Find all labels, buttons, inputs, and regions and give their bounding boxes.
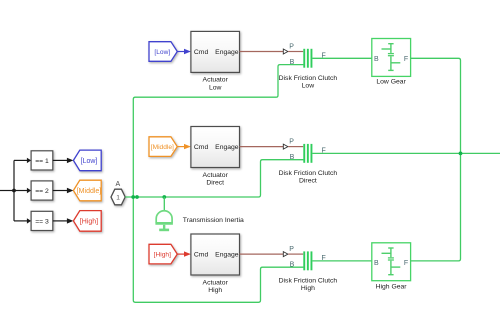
svg-text:Direct: Direct: [299, 178, 317, 185]
junction: input branch point: [12, 189, 16, 193]
actuator High block: [191, 234, 240, 275]
svg-text:A: A: [115, 181, 120, 188]
from tag [High]: [149, 244, 177, 264]
svg-text:Actuator: Actuator: [203, 279, 229, 286]
svg-text:P: P: [289, 138, 294, 145]
svg-text:Cmd: Cmd: [194, 49, 209, 56]
wire: tag to actuator direct: [177, 144, 191, 149]
wire: compare 3 to goto tag: [53, 218, 74, 223]
compare block == 2: [31, 181, 53, 200]
actuator Direct block: [191, 127, 240, 168]
label: Actuator Low: [203, 77, 229, 92]
wire: into compare block 2: [14, 188, 31, 193]
wire: Low Gear F down to output: [411, 58, 461, 153]
wire: into compare block 3: [14, 218, 31, 223]
svg-text:Actuator: Actuator: [203, 172, 229, 179]
wire: engage physical signal (high): [240, 253, 284, 255]
svg-text:Cmd: Cmd: [194, 252, 209, 259]
disk friction clutch Low (plates): [303, 49, 312, 68]
svg-text:F: F: [404, 56, 408, 63]
wire: engage physical signal (low): [240, 51, 284, 53]
pin arrow into clutch P (direct): [283, 144, 303, 149]
svg-text:High Gear: High Gear: [376, 284, 408, 291]
svg-text:Cmd: Cmd: [194, 144, 209, 151]
High Gear block: [372, 243, 411, 281]
wire: compare 1 to goto tag: [53, 158, 74, 163]
actuator Low block: [191, 31, 240, 72]
wire: tag to actuator low: [177, 49, 191, 54]
svg-text:High: High: [208, 287, 222, 294]
goto tag [Middle]: [73, 180, 101, 201]
compare block == 1: [31, 151, 53, 170]
from tag [Middle]: [149, 137, 177, 157]
svg-text:[Middle]: [Middle]: [77, 188, 102, 195]
wire: High Gear F up to output: [411, 153, 461, 261]
svg-text:Disk Friction Clutch: Disk Friction Clutch: [279, 75, 338, 82]
svg-text:Low: Low: [302, 83, 315, 90]
wire: clutch Low F to Low Gear B: [312, 57, 371, 59]
svg-text:B: B: [374, 56, 379, 63]
svg-text:P: P: [289, 246, 294, 253]
junction: bus / port A line: [131, 195, 135, 199]
svg-text:== 3: == 3: [35, 218, 49, 225]
svg-text:High: High: [301, 285, 315, 292]
svg-text:1: 1: [116, 195, 120, 202]
pin arrow into clutch P (high): [283, 252, 303, 257]
compare block == 3: [31, 211, 53, 230]
wire: branch vertical: [13, 160, 15, 221]
svg-text:Disk Friction Clutch: Disk Friction Clutch: [279, 170, 338, 177]
wire: into compare block 1: [14, 158, 31, 163]
wire: tag to actuator high: [177, 251, 191, 256]
svg-text:Engage: Engage: [215, 144, 239, 151]
label: Disk Friction Clutch Low: [279, 75, 338, 90]
goto tag [High]: [73, 211, 101, 232]
svg-text:Transmission Inertia: Transmission Inertia: [183, 217, 244, 224]
svg-text:Low: Low: [209, 84, 222, 91]
svg-text:[Middle]: [Middle]: [151, 144, 174, 151]
disk friction clutch Direct (plates): [303, 144, 312, 163]
svg-text:[Low]: [Low]: [81, 158, 98, 165]
svg-text:B: B: [290, 59, 295, 66]
wire: clutch Direct F to output: [312, 152, 500, 154]
wire: clutch High F to High Gear B: [312, 260, 371, 262]
svg-text:Actuator: Actuator: [203, 77, 229, 84]
svg-text:[High]: [High]: [154, 252, 171, 259]
svg-text:Engage: Engage: [215, 49, 239, 56]
svg-text:[Low]: [Low]: [154, 49, 170, 56]
disk friction clutch High (plates): [303, 251, 312, 270]
goto tag [Low]: [73, 150, 101, 171]
svg-text:B: B: [290, 262, 295, 269]
from tag [Low]: [149, 42, 177, 62]
wire: gear-command input: [0, 190, 14, 192]
wire: inertia stem: [163, 197, 165, 211]
svg-text:P: P: [289, 43, 294, 50]
wire: shaft bus, clutch Low B around to clutch High B: [133, 65, 303, 303]
svg-text:F: F: [404, 260, 408, 267]
transmission inertia icon: [155, 211, 173, 230]
wire: compare 2 to goto tag: [53, 188, 74, 193]
Low Gear block: [372, 39, 411, 77]
svg-text:Engage: Engage: [215, 252, 239, 259]
connection port 1 (hexagon): [111, 189, 125, 205]
label: Disk Friction Clutch Direct: [279, 170, 338, 185]
wire: port A to clutch Direct B: [125, 160, 303, 197]
label: Actuator High: [203, 279, 229, 294]
label: Actuator Direct: [203, 172, 229, 187]
label: Disk Friction Clutch High: [279, 278, 338, 293]
svg-text:[High]: [High]: [80, 218, 98, 225]
junction: output node: [459, 152, 463, 156]
svg-text:Direct: Direct: [206, 179, 224, 186]
svg-text:Low Gear: Low Gear: [376, 79, 406, 86]
svg-text:== 1: == 1: [35, 158, 49, 165]
svg-text:B: B: [290, 154, 295, 161]
pin arrow into clutch P (low): [283, 49, 303, 54]
junction: inertia tap: [162, 195, 166, 199]
svg-text:== 2: == 2: [35, 188, 49, 195]
wire: engage physical signal (direct): [240, 146, 284, 148]
svg-text:Disk Friction Clutch: Disk Friction Clutch: [279, 278, 338, 285]
svg-text:B: B: [374, 260, 379, 267]
